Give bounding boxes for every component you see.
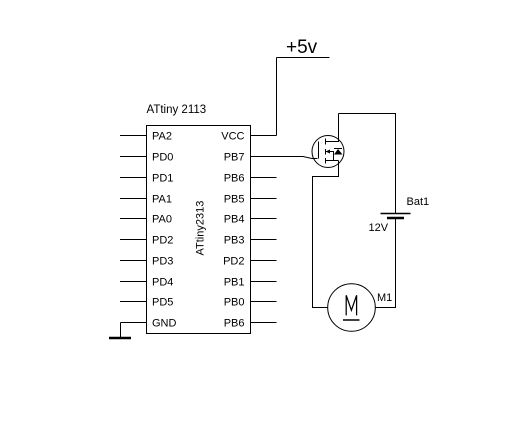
- pin VCC wire: [251, 135, 277, 137]
- pin PA1 wire: [120, 198, 147, 200]
- pin PD5 wire: [120, 301, 147, 303]
- svg-text:PA0: PA0: [152, 214, 172, 226]
- transistor Q1 body arrow line: [326, 152, 334, 161]
- svg-text:+5v: +5v: [286, 37, 318, 58]
- transistor Q1 body diode bar: [334, 148, 342, 150]
- pin PB5 wire: [251, 198, 277, 200]
- transistor Q1 body arrow head: [326, 150, 331, 154]
- pin PB6 wire: [251, 177, 277, 179]
- ground bar: [109, 337, 131, 340]
- wire battery minus to motor: [375, 219, 396, 308]
- pin PD2r wire: [251, 260, 277, 262]
- svg-text:PD4: PD4: [152, 277, 173, 289]
- pin PB1 wire: [251, 281, 277, 283]
- wire +5v to VCC: [276, 58, 278, 136]
- svg-text:GND: GND: [152, 318, 177, 330]
- pin PB3 wire: [251, 239, 277, 241]
- battery Bat1 long plate: [381, 213, 411, 215]
- svg-text:PD3: PD3: [152, 256, 173, 268]
- pin GND wire: [121, 322, 147, 324]
- svg-text:PB0: PB0: [224, 297, 245, 309]
- transistor Q1 channel segment bottom: [325, 158, 327, 164]
- pin PB0 wire: [251, 301, 277, 303]
- svg-text:PB5: PB5: [224, 194, 245, 206]
- pin PD2 wire: [120, 239, 147, 241]
- svg-text:PD0: PD0: [152, 152, 173, 164]
- wire drain to battery top: [339, 114, 396, 214]
- battery Bat1 short plate: [387, 217, 404, 219]
- svg-text:PA1: PA1: [152, 194, 172, 206]
- pin PB4 wire: [251, 218, 277, 220]
- pin PA2 wire: [120, 135, 147, 137]
- svg-text:PB3: PB3: [224, 235, 245, 247]
- pin PD4 wire: [120, 281, 147, 283]
- svg-text:PB6: PB6: [224, 318, 245, 330]
- svg-text:PA2: PA2: [152, 131, 172, 143]
- transistor Q1 gate bar: [318, 142, 320, 159]
- svg-text:M1: M1: [377, 292, 392, 304]
- transistor Q1 body diode triangle: [334, 149, 343, 155]
- svg-text:PB6: PB6: [224, 173, 245, 185]
- motor M1 circle: [328, 284, 376, 332]
- transistor Q1 source stub: [326, 160, 339, 162]
- transistor Q1 channel segment top: [325, 139, 327, 145]
- pin PD0 wire: [120, 156, 147, 158]
- svg-text:PD1: PD1: [152, 173, 173, 185]
- IC U1 body box: [147, 126, 251, 334]
- svg-text:ATtiny2313: ATtiny2313: [195, 201, 207, 256]
- svg-text:PD5: PD5: [152, 297, 173, 309]
- pin PD3 wire: [120, 260, 147, 262]
- motor M1 underline: [343, 319, 360, 321]
- svg-text:12V: 12V: [369, 222, 389, 234]
- svg-text:PD2: PD2: [223, 256, 244, 268]
- pin PD1 wire: [120, 177, 147, 179]
- power +5v bar: [277, 57, 330, 59]
- transistor Q1 drain stub: [326, 114, 339, 142]
- svg-text:PB1: PB1: [224, 277, 245, 289]
- transistor Q1 channel segment middle: [325, 149, 327, 155]
- wire source to motor: [313, 161, 339, 308]
- svg-text:VCC: VCC: [221, 131, 244, 143]
- pin PB7 wire: [251, 156, 277, 158]
- pin PB6b wire: [251, 322, 277, 324]
- svg-text:PB4: PB4: [224, 214, 245, 226]
- motor M1 letter M: [346, 295, 356, 315]
- svg-text:Bat1: Bat1: [407, 196, 430, 208]
- wire GND pin down: [120, 323, 122, 338]
- svg-text:PB7: PB7: [224, 152, 245, 164]
- pin PA0 wire: [120, 218, 147, 220]
- wire PB7 to gate: [277, 157, 318, 159]
- transistor Q1 circle: [312, 136, 344, 168]
- svg-text:PD2: PD2: [152, 235, 173, 247]
- svg-text:ATtiny 2113: ATtiny 2113: [147, 104, 207, 116]
